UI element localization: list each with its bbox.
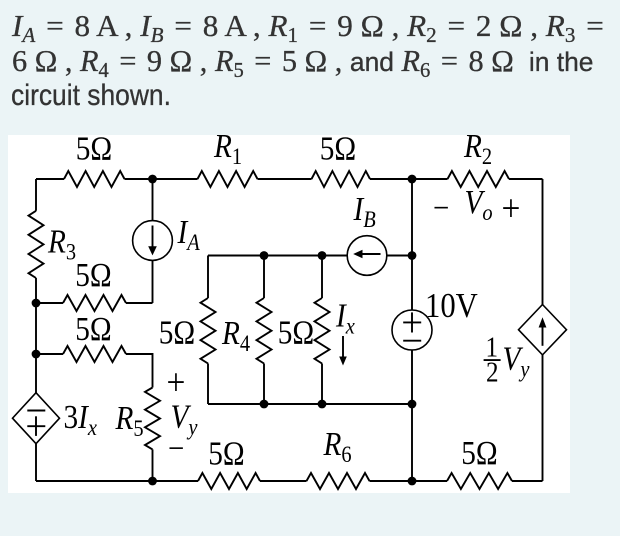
wire IA branch top (152, 179, 154, 221)
wire bank bottom rail (208, 403, 412, 405)
wire top rail segment 2 (125, 178, 198, 180)
label 5ohm (bank left) (159, 314, 195, 351)
wire bottom rail left (36, 480, 198, 482)
node dot bottom rail at R5 (148, 477, 157, 486)
resistor 5ohm (bank right) (315, 298, 330, 364)
wire left top (35, 179, 37, 211)
wire right vertical upper (542, 179, 544, 305)
svg-text:10V: 10V (425, 287, 478, 325)
wire top rail left segment (36, 178, 64, 180)
node dot bank bottom at third resistor (318, 400, 327, 409)
label 3Ix (64, 398, 98, 440)
node dot bottom rail mid (408, 477, 417, 486)
wire bottom rail segment 2 (260, 480, 307, 482)
svg-text:5Ω: 5Ω (75, 310, 111, 347)
label R6 (323, 425, 352, 467)
node dot left wire row1 (32, 299, 41, 308)
dependent source 3Ix (diamond) (13, 393, 60, 444)
wire top rail segment 4 (370, 178, 448, 180)
wire bank res1 bottom lead (207, 364, 209, 405)
resistor R6 (307, 473, 370, 489)
label 5ohm (bank right) (278, 314, 314, 351)
label R5 (115, 399, 144, 441)
wire top rail right segment (509, 178, 543, 180)
wire bottom rail right (512, 480, 543, 482)
node dot left wire row2 (32, 350, 41, 359)
wire left middle (35, 278, 37, 393)
circuit panel background (8, 135, 570, 493)
node dot mid vertical at bank top (408, 251, 417, 260)
problem statement text line 1 (12, 10, 607, 41)
node dot mid vertical at bank bottom (408, 400, 417, 409)
wire bottom rail segment 3 (370, 480, 448, 482)
node dot bank top at third resistor (318, 251, 327, 260)
svg-text:−: − (433, 189, 449, 226)
wire bank res2 bottom lead (263, 364, 265, 405)
wire bank top rail (208, 255, 347, 257)
label plus Vy minus (across R5) (167, 360, 198, 466)
svg-text:5Ω: 5Ω (75, 256, 111, 293)
resistor 5ohm (bottom right) (447, 473, 512, 489)
wire row1 left (36, 302, 63, 304)
label half Vy (484, 331, 530, 388)
node dot top rail mid (408, 175, 417, 184)
label 5ohm (top middle) (320, 130, 356, 167)
label 5ohm (top left) (76, 130, 112, 167)
resistor R3 (29, 211, 44, 278)
resistor R4 (257, 298, 272, 364)
wire left bottom (35, 444, 37, 481)
wire R5 bottom (152, 449, 154, 481)
wire row1 right (126, 302, 153, 304)
wire bank res3 bottom lead (321, 364, 323, 405)
svg-text:5Ω: 5Ω (159, 314, 195, 351)
label R1 (213, 127, 242, 169)
svg-text:5Ω: 5Ω (461, 434, 497, 471)
problem statement text line 2 (12, 45, 593, 76)
svg-text:5Ω: 5Ω (208, 435, 244, 472)
svg-text:5Ω: 5Ω (278, 314, 314, 351)
svg-text:5Ω: 5Ω (320, 130, 356, 167)
svg-text:+: + (502, 186, 521, 229)
wire right vertical lower (542, 355, 544, 481)
current source IA (circle) (133, 221, 173, 261)
svg-text:R1: R1 (213, 127, 242, 169)
resistor 5ohm (row1) (63, 295, 126, 311)
label Ix (335, 297, 355, 339)
voltage source 10V (circle) (392, 310, 432, 350)
svg-text:+: + (167, 360, 186, 403)
resistor R2 (448, 171, 510, 187)
label IA (177, 213, 201, 255)
label R2 (463, 127, 492, 169)
current source IB (circle) (347, 236, 387, 276)
svg-text:5Ω: 5Ω (76, 130, 112, 167)
svg-text:R2: R2 (463, 127, 492, 169)
wire mid vertical lower (411, 350, 413, 481)
svg-text:−: − (168, 429, 184, 466)
label IB (353, 190, 376, 232)
resistor 5ohm (bottom left) (198, 473, 260, 489)
label R3 (47, 223, 76, 265)
wire top rail segment 3 (258, 178, 312, 180)
label 10V (425, 287, 478, 325)
node dot bank top at R4 (260, 251, 269, 260)
resistor 5ohm (top middle) (312, 171, 371, 187)
resistor R5 (145, 388, 160, 450)
node dot bank bottom at R4 (260, 400, 269, 409)
label 5ohm (row1) (75, 256, 111, 293)
resistor R1 (198, 171, 258, 187)
wire IA branch bottom (152, 260, 154, 303)
problem statement text line 3 (11, 81, 171, 111)
resistor 5ohm (top left) (64, 171, 125, 187)
wire bank res3 top lead (321, 256, 323, 299)
wire bank res1 top lead (207, 256, 209, 299)
dependent source half-Vy (diamond) (519, 305, 567, 355)
label 5ohm (row2) (75, 310, 111, 347)
wire mid vertical upper (411, 179, 413, 310)
label 5ohm (bottom right) (461, 434, 497, 471)
wire bank res2 top lead (263, 256, 265, 299)
arrow Ix (current direction) (339, 336, 347, 366)
wire row2 right (126, 354, 153, 388)
wire bank top rail right (387, 255, 412, 257)
label minus Vo plus (433, 183, 520, 229)
label R4 (221, 314, 250, 356)
resistor 5ohm (row2) (63, 346, 126, 362)
svg-text:2: 2 (486, 356, 499, 388)
resistor 5ohm (bank left) (201, 298, 216, 364)
node dot top rail at IA branch (148, 175, 157, 184)
label 5ohm (bottom left) (208, 435, 244, 472)
wire row2 left (36, 353, 63, 355)
